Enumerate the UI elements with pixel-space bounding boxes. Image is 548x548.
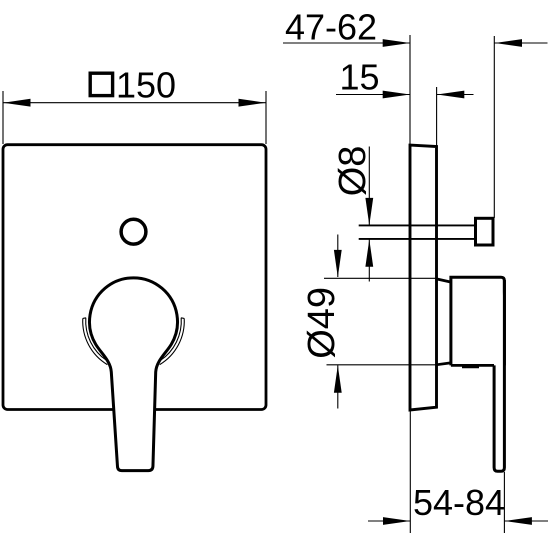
svg-text:54-84: 54-84 [413,482,505,523]
dim Ø8: dimension line upper [368,147,370,226]
svg-text:15: 15 [340,56,380,97]
dim 150: square symbol [90,73,112,95]
dim 150: extension line left [2,91,4,144]
dim 54-84: arrow pointing left [505,517,532,525]
dim 47-62: dimension line right [495,42,548,44]
rosette arc right outer [160,318,185,364]
dim 54-84: extension line left [409,410,411,533]
dim 150: arrow right [239,99,266,107]
dim 15: dimension line right [437,94,474,96]
side view: diverter stem bottom line [359,238,475,240]
side view: diverter stem top line [359,224,475,226]
dim 15: arrow pointing left [437,91,464,99]
dim Ø49: arrow pointing down [334,250,342,277]
dim 54-84: dimension line left [368,520,410,522]
rosette arc right inner [160,318,181,361]
dim 47-62: dimension line left [283,42,410,44]
rosette arc left outer [83,318,108,364]
dim 15: dimension line left [336,94,410,96]
side view: handle base bottom edge [451,364,494,367]
side view: handle base cylinder [451,277,505,365]
rosette arc left tip [83,317,86,320]
side view: diverter knob [476,218,494,245]
dim Ø8: arrow pointing up [365,239,373,266]
diverter button (small circle) [121,219,146,244]
lever handle (front view, circle + stick) [90,278,178,471]
svg-text:150: 150 [116,65,176,106]
dim 47-62: extension line at knob face [493,36,495,218]
dim Ø8: dimension line lower [368,239,370,281]
dim 150: dimension line [3,102,266,104]
dim Ø49: extension line top [324,277,438,279]
svg-text:Ø8: Ø8 [332,146,374,197]
dim 47-62: arrow pointing left [495,39,522,47]
dim 15: extension line at plate front [436,87,438,147]
dim 150: arrow left [3,99,30,107]
side view: handle bottom thick dash [462,365,479,368]
front view: square plate [3,145,266,410]
dim Ø8: arrow pointing down [365,198,373,225]
side view: sleeve top edge [437,279,451,282]
dim 47-62: arrow pointing right [383,39,410,47]
dim 15: arrow pointing right [383,91,410,99]
dim Ø49: dimension line lower [337,365,339,408]
rosette arc right tip [181,317,184,320]
rosette arc left inner [86,318,107,361]
dim 54-84: arrow pointing right [383,517,410,525]
side view: sleeve bottom edge [437,363,451,365]
dim Ø49: dimension line upper [337,235,339,278]
side view: plate edge [410,145,437,410]
dim Ø49: extension line bottom [327,364,438,366]
svg-text:Ø49: Ø49 [301,287,343,359]
dim 47-62: extension line at wall [409,35,411,145]
dim 54-84: extension line right [503,472,505,533]
svg-text:47-62: 47-62 [285,7,377,48]
dim Ø49: arrow pointing up [334,365,342,392]
dim 54-84: dimension line right [504,520,548,522]
dim 150: extension line right [265,91,267,144]
side view: lever [494,280,504,471]
